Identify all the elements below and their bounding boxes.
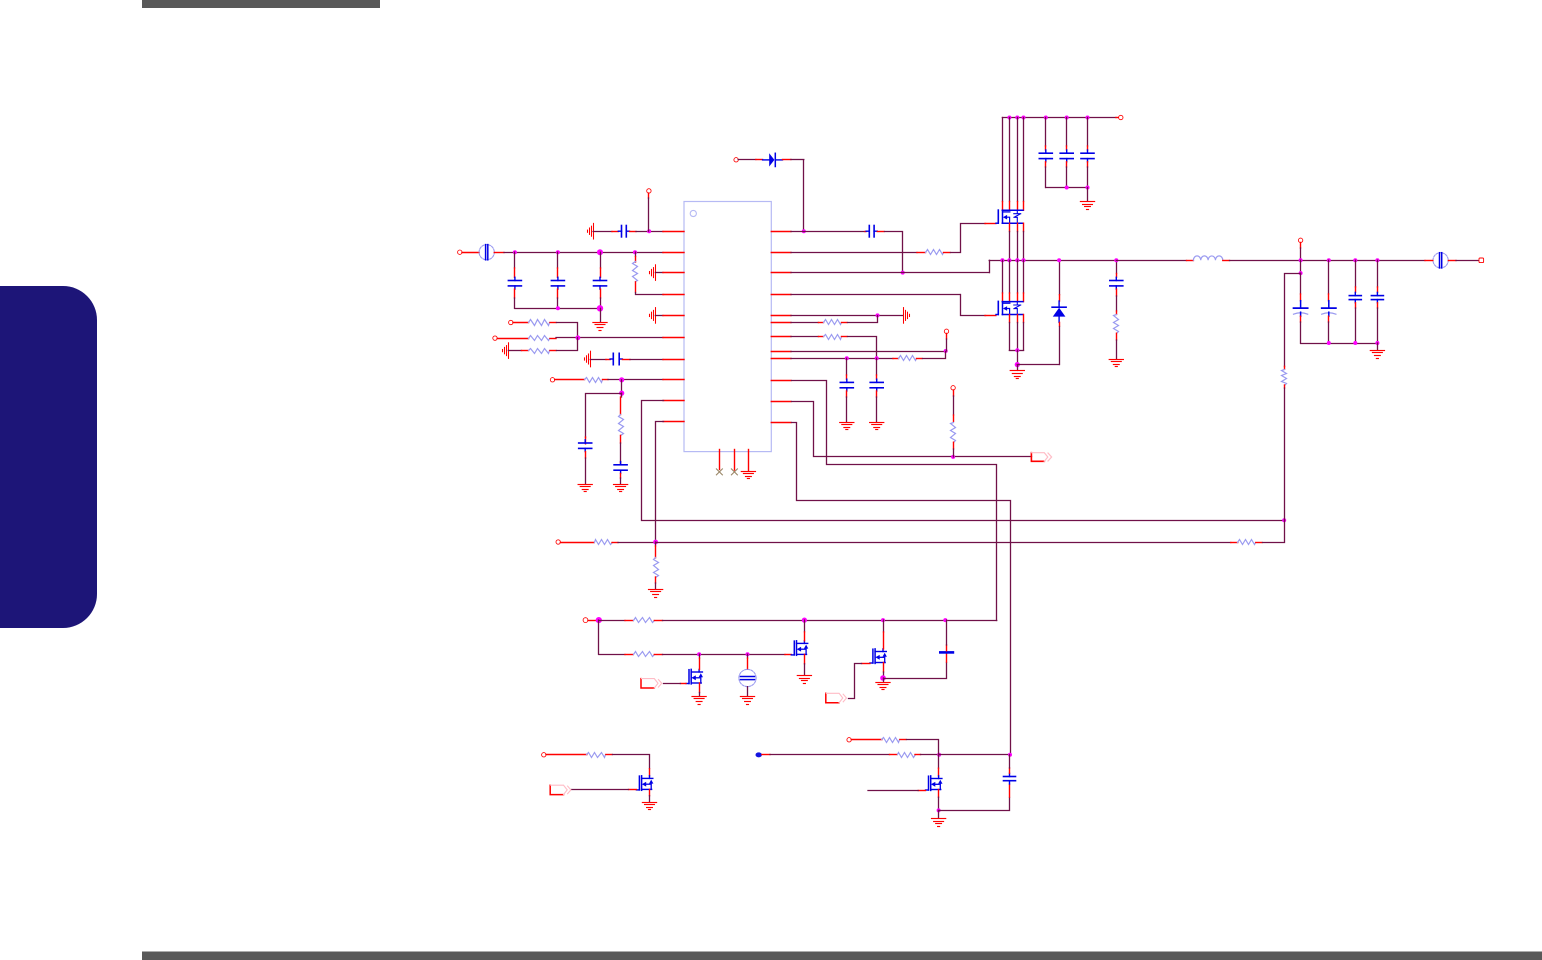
page chrome: top grey bar <box>142 0 380 8</box>
node VOUT terminal <box>1479 258 1484 263</box>
no-connect mark <box>716 469 722 475</box>
resistor R12 <box>634 652 655 657</box>
wire <box>791 336 818 338</box>
node SKIP terminal <box>944 329 948 333</box>
transistor Q1 high-side MOSFET <box>997 210 999 223</box>
wire Q2 source bus <box>1009 350 1023 352</box>
wire FB sense run <box>642 401 1285 521</box>
wire <box>951 224 986 253</box>
wire output rail <box>1230 260 1426 262</box>
junction <box>1015 348 1019 352</box>
junction <box>1282 518 1286 522</box>
resistor R18 <box>951 423 956 443</box>
wire <box>586 394 622 438</box>
capacitor C16 <box>876 358 878 375</box>
wire <box>494 252 504 254</box>
ground <box>741 471 755 473</box>
wire second row feed <box>598 620 600 654</box>
junction <box>1015 116 1019 120</box>
junction <box>1065 116 1069 120</box>
wire <box>907 740 939 755</box>
junction <box>1299 271 1303 275</box>
capacitor C1 <box>618 230 621 232</box>
wire <box>1284 388 1286 520</box>
junction <box>1008 753 1012 757</box>
resistor R13 gate Q1 <box>926 250 944 255</box>
junction <box>876 313 880 317</box>
pin 10L stub <box>663 421 684 423</box>
transistor Q7 <box>928 776 930 790</box>
wire <box>630 231 637 233</box>
capacitor C21 polarized <box>1300 273 1302 294</box>
wire <box>663 654 786 656</box>
junction <box>1000 258 1004 262</box>
capacitor C2 <box>514 252 516 268</box>
wire switch node bus <box>989 260 1116 262</box>
junction <box>1015 362 1020 367</box>
node GATE2 terminal <box>847 738 851 742</box>
wire <box>851 739 882 741</box>
ground <box>1017 365 1019 371</box>
power symbol AGND1 (pin 3L) <box>655 265 657 281</box>
junction <box>619 377 624 382</box>
wire <box>557 323 578 338</box>
wire VIN+ top rail <box>1002 117 1116 119</box>
wire <box>953 390 955 396</box>
junction <box>1114 258 1118 262</box>
wire <box>656 422 664 543</box>
wire <box>939 754 1010 756</box>
wire <box>1017 364 1059 366</box>
wire <box>791 322 818 324</box>
wire <box>921 754 940 756</box>
wire <box>621 380 623 393</box>
junction <box>1327 258 1331 262</box>
pin 1L stub <box>663 231 684 233</box>
wire output cap bus <box>1301 343 1378 345</box>
wire Q1 source leads <box>1009 223 1011 231</box>
resistor R6 <box>621 393 623 397</box>
page chrome: blue side tab <box>0 286 97 628</box>
wire feedback tap <box>1300 260 1302 273</box>
junction <box>1353 341 1357 345</box>
wire Q3 gate stub <box>785 654 791 656</box>
node ON2 terminal <box>493 336 497 340</box>
capacitor C22 polarized <box>1328 260 1330 294</box>
wire <box>546 754 587 756</box>
wire switch node riser <box>989 260 991 272</box>
node blue net stub <box>756 752 762 757</box>
junction <box>1022 258 1026 262</box>
capacitor C15 <box>846 358 848 375</box>
junction <box>1007 258 1011 262</box>
transistor Q4 <box>872 649 874 663</box>
junction <box>901 271 905 275</box>
node VIN terminal <box>458 250 462 254</box>
node 5V-ALW terminal <box>583 618 588 623</box>
pin 3L stub <box>655 272 663 274</box>
wire <box>1059 327 1061 365</box>
wire Q6 gate <box>629 789 637 791</box>
node PGOOD-PU terminal <box>951 386 955 390</box>
wire <box>791 351 946 353</box>
IC bottom pin stubs <box>719 450 721 470</box>
resistor R5 <box>555 379 585 381</box>
junction <box>1299 258 1303 262</box>
wire Q4 gate <box>862 663 870 665</box>
wire <box>556 337 663 339</box>
power symbol AVDD (pin 1L bypass) <box>593 223 595 239</box>
transistor Q2 low-side MOSFET <box>997 301 999 314</box>
junction <box>802 229 806 233</box>
pin 3R stub LX <box>771 272 791 274</box>
wire Q5 gate <box>680 683 686 685</box>
off-page connector PGOOD <box>1031 453 1044 462</box>
no-connect mark <box>731 469 737 475</box>
capacitor C3 <box>557 252 559 268</box>
capacitor C14 bootstrap <box>866 230 869 232</box>
wire Q1 drain leads <box>1002 118 1004 202</box>
node OUTSEL terminal <box>556 540 560 544</box>
wire long run to feedback divider <box>656 542 1231 544</box>
pin 5L stub <box>655 315 663 317</box>
wire <box>585 452 587 458</box>
node VOUT-SENSE terminal <box>1298 238 1302 242</box>
resistor R19 snubber <box>1116 311 1118 314</box>
capacitor C5 <box>610 358 613 360</box>
capacitor C18 <box>1066 118 1068 147</box>
wire Q7 gate <box>918 790 925 792</box>
wire <box>791 159 804 161</box>
pin 5R stub <box>771 315 791 317</box>
power symbol AGND2 (pin 5L) <box>655 308 657 324</box>
resistor R20 feedback upper <box>1284 366 1286 369</box>
resistor R1 <box>635 252 637 256</box>
junction <box>1375 341 1379 345</box>
ground <box>938 810 940 818</box>
pin 6L stub <box>663 337 684 339</box>
junction <box>697 652 701 656</box>
resistor R7 <box>560 542 594 544</box>
capacitor C25 <box>946 654 948 662</box>
wire <box>462 252 479 254</box>
junction <box>633 250 637 254</box>
pin 7L stub <box>663 359 684 361</box>
junction <box>1327 341 1331 345</box>
wire <box>618 542 656 544</box>
off-page connector gate A <box>641 679 654 688</box>
junction <box>1065 186 1069 190</box>
junction <box>647 229 651 233</box>
resistor R4 <box>508 350 521 352</box>
power symbol REFGND (pin 7L) <box>590 351 592 367</box>
wire <box>791 358 893 360</box>
pin 2R stub <box>771 252 791 254</box>
pin 12R stub <box>771 422 791 424</box>
ground <box>578 484 592 486</box>
wire Q7 drain <box>938 755 940 768</box>
junction <box>1015 258 1019 262</box>
junction <box>937 808 941 812</box>
junction <box>513 250 517 254</box>
resistor R22 <box>890 754 898 756</box>
junction <box>845 356 849 360</box>
junction <box>1057 258 1061 262</box>
wire <box>613 755 650 769</box>
node VIN+ terminal <box>1119 115 1123 119</box>
junction <box>875 356 879 360</box>
wire <box>599 620 625 622</box>
wire <box>923 352 946 359</box>
transistor Q5 <box>688 670 690 684</box>
capacitor C23 <box>1355 260 1357 287</box>
junction <box>1044 116 1048 120</box>
wire Q2 source leads <box>1009 315 1011 323</box>
ground <box>740 696 754 698</box>
wire <box>939 798 1010 811</box>
off-page connector gate B <box>826 693 839 702</box>
junction <box>1353 258 1357 262</box>
IC U1 DC-DC controller body <box>684 202 771 452</box>
wire <box>593 231 612 233</box>
pin 2L stub <box>663 252 684 254</box>
junction <box>619 391 624 396</box>
inductor L1 <box>1116 260 1186 262</box>
wire <box>620 473 622 478</box>
wire <box>791 272 989 274</box>
wire <box>590 359 606 361</box>
wire <box>791 315 903 317</box>
wire Q2 drain leads <box>1002 260 1004 293</box>
pin 6R stub <box>771 322 791 324</box>
wire <box>1300 243 1302 249</box>
junction <box>1086 116 1090 120</box>
wire cap bottom bus <box>515 308 600 310</box>
resistor R9 pulldown <box>655 542 657 546</box>
resistor R3 <box>497 338 528 340</box>
resistor R15 <box>824 320 842 325</box>
page chrome: bottom grey bar <box>142 952 1542 960</box>
ground <box>840 422 854 424</box>
ground <box>692 696 706 698</box>
resistor R23 <box>882 738 900 743</box>
junction <box>1007 116 1011 120</box>
junction <box>576 335 581 340</box>
ferrite bead FB1 <box>479 245 494 260</box>
junction <box>937 753 941 757</box>
junction <box>944 349 948 353</box>
wire PGOOD run <box>792 402 1032 457</box>
wire <box>1263 521 1285 543</box>
pin 8R stub <box>771 351 791 353</box>
junction <box>1375 258 1379 262</box>
junction <box>597 305 603 311</box>
junction <box>556 306 560 310</box>
pin 9L stub <box>663 400 684 402</box>
node GATE1 terminal <box>542 753 546 757</box>
wire rail <box>663 620 997 622</box>
ground <box>642 802 656 804</box>
wire Q6 source <box>649 789 651 795</box>
wire <box>791 294 960 296</box>
resistor R21 <box>587 753 606 758</box>
junction <box>653 540 658 545</box>
capacitor C19 <box>1087 118 1089 147</box>
capacitor C24 <box>1377 260 1379 287</box>
junction <box>597 249 603 255</box>
off-page connector gate C <box>550 785 563 794</box>
wire Q3 source <box>804 654 806 663</box>
wire <box>608 379 663 381</box>
pin 4R stub <box>771 294 791 296</box>
power symbol VDDP <box>903 308 905 324</box>
pin 4L stub <box>663 294 684 296</box>
junction <box>1086 186 1090 190</box>
transistor Q3 <box>793 641 795 655</box>
ground <box>870 422 884 424</box>
wire Q7 source <box>938 790 940 798</box>
wire input cap bus <box>1046 187 1088 189</box>
wire <box>620 443 622 462</box>
capacitor C7 <box>620 462 622 465</box>
capacitor C17 <box>1045 118 1047 147</box>
wire Q3 drain <box>804 620 806 632</box>
wire ILIM run <box>792 381 997 621</box>
wire <box>648 193 650 198</box>
junction <box>746 652 750 656</box>
junction <box>556 250 560 254</box>
wire <box>1425 260 1433 262</box>
ground <box>1109 359 1123 361</box>
wire <box>762 754 770 756</box>
pin 9R stub <box>771 358 791 360</box>
wire <box>946 334 948 340</box>
capacitor X1 special <box>747 654 749 658</box>
node FBSEL terminal <box>550 378 554 382</box>
capacitor C4 <box>600 252 602 268</box>
transistor Q6 <box>638 776 640 790</box>
junction <box>943 618 947 622</box>
ground <box>883 678 885 682</box>
ground <box>600 308 602 322</box>
wire <box>877 231 884 233</box>
ferrite bead FB2 <box>1433 253 1448 268</box>
diode D1 <box>738 159 756 161</box>
wire Q5 source <box>699 683 701 693</box>
wire <box>848 337 877 359</box>
wire Q4 drain <box>883 620 885 632</box>
ground <box>797 675 811 677</box>
capacitor C20 snubber <box>1116 260 1118 273</box>
resistor R16 <box>824 335 842 340</box>
junction <box>880 675 886 681</box>
pin 1R stub <box>771 231 791 233</box>
wire <box>557 338 578 351</box>
resistor R17 <box>899 356 917 361</box>
junction <box>802 618 807 623</box>
resistor R11 <box>634 618 655 623</box>
junction <box>881 618 885 622</box>
pin 11R stub <box>771 401 791 403</box>
junction <box>596 617 602 623</box>
capacitor C6 <box>584 440 586 443</box>
wire <box>848 316 878 323</box>
power symbol PGND (R4) <box>508 343 510 359</box>
pin 7R stub <box>771 336 791 338</box>
wire Q4 source <box>883 663 885 673</box>
wire <box>622 359 630 361</box>
wire <box>588 620 596 622</box>
resistor R8 <box>1231 542 1238 544</box>
ground <box>614 484 628 486</box>
node ON1 terminal <box>509 320 513 324</box>
wire <box>636 293 664 295</box>
ground <box>649 589 663 591</box>
wire <box>1017 350 1019 364</box>
capacitor C26 <box>1009 784 1011 797</box>
wire DRV run <box>792 423 1011 755</box>
pin 10R stub <box>771 380 791 382</box>
wire <box>791 231 865 233</box>
pin 8L stub <box>663 379 684 381</box>
ground <box>1377 343 1379 350</box>
junction <box>1022 116 1026 120</box>
ground <box>1087 188 1089 202</box>
wire <box>884 663 947 679</box>
junction <box>951 455 955 459</box>
diode D2 schottky <box>1059 260 1061 294</box>
resistor R2 <box>513 322 529 324</box>
wire <box>791 252 917 254</box>
node LDO terminal <box>647 189 651 193</box>
node VIN-AUX terminal <box>734 158 738 162</box>
wire Q5 drain <box>699 654 701 658</box>
